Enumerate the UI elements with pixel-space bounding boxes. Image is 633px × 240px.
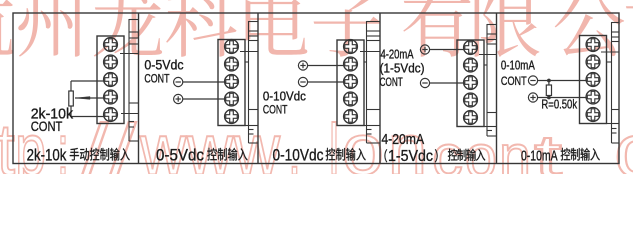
terminal block TB3 (5 screw terminals) bbox=[337, 40, 364, 126]
wire minus to terminal 3 panel 4 bbox=[430, 82, 465, 84]
terminal block TB4 (5 screw terminals) bbox=[457, 40, 484, 127]
svg-text:1-5Vdc: 1-5Vdc bbox=[388, 148, 433, 165]
wire minus to terminal 3 panel 2 bbox=[183, 81, 226, 83]
module case edge panel 4 (heatsink fins) bbox=[479, 24, 497, 136]
junction node bottom bbox=[547, 96, 551, 100]
svg-text:4-20mA: 4-20mA bbox=[381, 46, 414, 61]
svg-text:CONT: CONT bbox=[501, 74, 527, 88]
wire plus to terminal 1 panel 4 bbox=[430, 49, 465, 51]
panel 3 title 控制输入 bbox=[326, 148, 366, 161]
wire plus to terminal 4 panel 2 bbox=[183, 98, 226, 100]
svg-text:(1-5Vdc): (1-5Vdc) bbox=[380, 60, 425, 75]
wire pot wiper arrow to terminal 4 bbox=[75, 97, 105, 100]
module case edge panel 1 (heatsink fins) bbox=[120, 19, 139, 141]
panel 2 title 控制输入 bbox=[207, 148, 247, 161]
panel 1 title 手动控制输入 bbox=[70, 148, 130, 161]
source terminal plus panel 2 bbox=[174, 94, 183, 103]
svg-text:/: / bbox=[82, 111, 108, 175]
svg-text:CONT: CONT bbox=[144, 72, 170, 86]
wire pot top lead to terminal 3 bbox=[70, 81, 72, 91]
svg-text:4-20mA: 4-20mA bbox=[381, 131, 424, 148]
svg-text:CONT: CONT bbox=[31, 118, 63, 134]
panel frame (5 wiring-diagram panels) bbox=[13, 13, 619, 164]
terminal block TB1 (5 screw terminals) bbox=[97, 36, 124, 124]
wire plus to terminal 4 panel 5 bbox=[538, 97, 587, 99]
source terminal minus panel 3 bbox=[298, 77, 307, 86]
svg-text:0-5Vdc: 0-5Vdc bbox=[144, 58, 183, 73]
svg-text:c: c bbox=[432, 123, 463, 174]
wire plus to terminal 2 panel 3 bbox=[308, 65, 345, 67]
wire minus to terminal 3 panel 5 bbox=[538, 80, 587, 82]
module case edge panel 3 (heatsink fins) bbox=[360, 21, 380, 143]
panel 5 title 控制输入 bbox=[561, 148, 600, 161]
svg-text:0-10Vdc: 0-10Vdc bbox=[273, 146, 324, 165]
resistor R 0.50k bbox=[546, 81, 551, 98]
watermark company name 杭州龙科电子有限公司 (pink, top, clipped) bbox=[0, 0, 633, 57]
potentiometer RP 2k-10k bbox=[69, 91, 74, 106]
module case edge panel 5 (heatsink fins) bbox=[601, 22, 619, 143]
svg-text:R=0.50k: R=0.50k bbox=[541, 97, 577, 112]
panel 4 title （ bbox=[385, 149, 388, 162]
svg-text:0-5Vdc: 0-5Vdc bbox=[156, 146, 204, 165]
wire pot top horizontal to terminal 3 bbox=[71, 80, 105, 82]
svg-text:CONT: CONT bbox=[263, 102, 288, 116]
terminal block TB2 (5 screw terminals) bbox=[218, 40, 245, 126]
svg-text:0-10mA: 0-10mA bbox=[501, 57, 535, 72]
module case edge panel 2 (heatsink fins) bbox=[240, 21, 258, 143]
panel 4 title ） bbox=[435, 149, 438, 162]
svg-text:c: c bbox=[614, 109, 633, 174]
terminal block TB5 (5 screw terminals) bbox=[580, 36, 607, 124]
source terminal minus panel 5 bbox=[528, 76, 537, 85]
wire minus to terminal 3 panel 3 bbox=[308, 81, 345, 83]
svg-text:2k-10k: 2k-10k bbox=[27, 146, 67, 165]
source terminal plus panel 4 bbox=[420, 45, 429, 54]
watermark web address text (pink outline, bottom, clipped) bbox=[0, 109, 633, 194]
panel 4 title 控制输入 bbox=[448, 149, 485, 161]
wire pot bottom horizontal to terminal 5 bbox=[71, 116, 106, 118]
source terminal plus panel 5 bbox=[528, 93, 537, 102]
source terminal minus panel 4 bbox=[420, 78, 429, 87]
wire pot bottom lead down bbox=[70, 106, 72, 117]
svg-text:0-10mA: 0-10mA bbox=[521, 148, 558, 165]
source terminal minus panel 2 bbox=[174, 77, 183, 86]
source terminal plus panel 3 bbox=[298, 61, 307, 70]
junction node top bbox=[547, 79, 551, 83]
svg-text:o: o bbox=[465, 123, 497, 174]
svg-text:CONT: CONT bbox=[380, 75, 404, 89]
